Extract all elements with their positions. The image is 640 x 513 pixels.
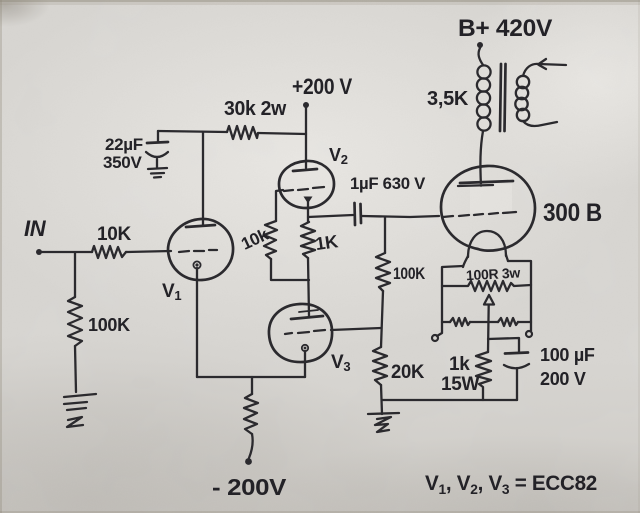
- capacitor 22uF: [146, 131, 168, 168]
- label 100uF 200V: [540, 345, 595, 389]
- svg-text:100 µF: 100 µF: [540, 345, 595, 365]
- node IN terminal: [36, 249, 42, 255]
- potentiometer wiper arrow: [484, 295, 494, 305]
- node filament supply left: [432, 335, 438, 341]
- triode V1 cathode: [193, 261, 200, 268]
- wire V1 cathode down: [196, 268, 198, 377]
- wire B+ to transformer primary: [479, 48, 483, 65]
- resistor 10K input: [92, 246, 126, 258]
- resistor 10k grid: [264, 221, 277, 259]
- svg-text:350V: 350V: [103, 153, 142, 172]
- svg-text:1K: 1K: [314, 231, 339, 254]
- triode V1 plate: [186, 225, 215, 227]
- svg-text:15W: 15W: [441, 374, 480, 395]
- svg-text:22µF: 22µF: [105, 135, 143, 154]
- tube 300B filament: [468, 231, 506, 257]
- transformer primary 3.5K: [477, 65, 491, 130]
- resistor 1K 15W: [476, 352, 491, 400]
- node filament supply right: [526, 331, 532, 337]
- wire 100K to ground: [75, 346, 76, 392]
- triode V2 envelope: [279, 161, 334, 208]
- svg-text:B+ 420V: B+ 420V: [458, 15, 552, 42]
- tube 300B envelope: [441, 166, 535, 251]
- ground at 22uF: [148, 168, 167, 178]
- resistor 100K grid leak: [376, 253, 390, 291]
- wire wiper junction to 100uF: [488, 338, 519, 352]
- svg-text:1k: 1k: [449, 354, 470, 375]
- node B+ terminal: [477, 42, 483, 48]
- svg-text:30k 2w: 30k 2w: [224, 98, 287, 120]
- wire wiper down: [487, 305, 490, 352]
- triode V3 envelope: [269, 304, 332, 362]
- wire tail stub: [251, 377, 253, 394]
- wire junction down to 100K: [384, 217, 386, 253]
- node -200V terminal: [245, 458, 252, 465]
- wire 10k to V3 plate line: [271, 259, 309, 280]
- wire cap to 300B grid: [362, 216, 439, 217]
- svg-text:10K: 10K: [97, 224, 132, 245]
- ground main: [368, 413, 399, 432]
- wire ground bus to cathode network: [382, 399, 517, 401]
- wire V2 cathode to coupling cap: [308, 215, 353, 217]
- triode V3 cathode: [302, 345, 308, 351]
- wire 1K to V3 plate: [308, 258, 309, 316]
- wire V3 grid to junction: [331, 328, 381, 330]
- tube 300B plate: [458, 181, 513, 186]
- transformer secondary coil: [515, 76, 529, 121]
- wire 10K to V1 grid: [126, 251, 171, 252]
- triode V1 grid: [179, 250, 217, 252]
- svg-text:300 B: 300 B: [543, 199, 602, 227]
- triode V2 grid: [284, 187, 324, 191]
- wire 20K to ground: [381, 385, 382, 414]
- transformer core: [500, 64, 506, 131]
- wire 100K to 20K: [381, 291, 383, 347]
- wire V1 plate to 30k junction: [202, 132, 204, 225]
- wire hum pot frame: [437, 261, 531, 336]
- capacitor 1uF coupling: [355, 203, 362, 225]
- svg-text:100K: 100K: [88, 315, 130, 335]
- wire IN to 10K: [42, 251, 92, 253]
- wire V3 cathode down: [304, 351, 306, 377]
- svg-text:- 200V: - 200V: [212, 474, 287, 500]
- wire V2 grid to 10k: [276, 190, 283, 221]
- wire filament left leg: [463, 256, 468, 267]
- resistor 30k: [227, 126, 258, 139]
- wire balance line: [442, 321, 531, 323]
- resistor 1K V2 cathode: [301, 222, 315, 258]
- svg-text:+200 V: +200 V: [292, 74, 353, 99]
- wire primary to 300B plate: [480, 131, 483, 186]
- wire filament right leg: [506, 255, 508, 261]
- svg-text:200 V: 200 V: [540, 369, 586, 389]
- capacitor 100uF: [504, 353, 529, 401]
- wire secondary top lead: [523, 59, 566, 76]
- resistor balance right: [498, 318, 518, 326]
- wire input junction to 100K: [74, 253, 76, 297]
- node +200V terminal: [303, 102, 309, 108]
- label 22uF 350V: [103, 135, 143, 172]
- svg-text:V1, V2, V3 = ECC82: V1, V2, V3 = ECC82: [425, 472, 597, 497]
- wire plate supply bus: [158, 131, 306, 134]
- resistor 20K: [373, 347, 387, 385]
- triode V1 envelope: [168, 219, 233, 280]
- wire V2 cathode junction: [307, 202, 309, 222]
- svg-text:IN: IN: [24, 216, 47, 241]
- wire secondary bottom lead: [523, 121, 557, 126]
- svg-text:100R 3w: 100R 3w: [466, 264, 521, 283]
- wire +200V to V2 plate: [305, 108, 307, 168]
- svg-text:20K: 20K: [391, 362, 425, 383]
- triode V3 plate: [291, 310, 323, 319]
- resistor balance left: [450, 318, 470, 326]
- tube 300B grid: [443, 212, 516, 217]
- wire tail resistor to terminal: [249, 434, 253, 458]
- triode V2 cathode: [304, 197, 313, 204]
- svg-text:1µF 630 V: 1µF 630 V: [350, 174, 426, 193]
- wire cathode bus: [197, 376, 305, 378]
- triode V2 plate: [293, 169, 317, 171]
- label 1k 15W: [441, 354, 480, 395]
- svg-text:100K: 100K: [393, 264, 426, 283]
- ground input: [64, 394, 96, 427]
- potentiometer 100R 3W: [442, 281, 531, 291]
- resistor 100K input: [68, 297, 82, 346]
- svg-text:3,5K: 3,5K: [427, 88, 469, 110]
- resistor tail to -200V: [244, 394, 258, 434]
- triode V3 grid: [285, 330, 325, 334]
